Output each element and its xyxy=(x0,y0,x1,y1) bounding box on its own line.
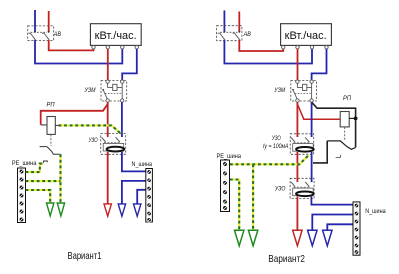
wire red AB to meter xyxy=(49,40,94,51)
svg-text:N_шина: N_шина xyxy=(365,209,386,215)
wire black UZM to RP xyxy=(312,102,356,147)
wire blue UZM to UZO xyxy=(121,102,123,137)
wire PE row2 xyxy=(26,180,61,182)
RP contact xyxy=(327,141,355,149)
wire L phase red drop to AB xyxy=(238,12,240,32)
wire red UZM to UZO1 xyxy=(296,102,298,137)
wire red branch to RP coil xyxy=(297,104,340,119)
wire blue meter to UZM xyxy=(312,49,327,80)
wire blue N row3 xyxy=(137,190,146,204)
wire red UZO2 to arrow xyxy=(296,197,298,231)
breaker AB pole red xyxy=(238,31,240,33)
RP coil tick left xyxy=(41,124,47,126)
UZO1 internals xyxy=(291,137,309,142)
wire red UZM to UZO xyxy=(107,102,109,137)
svg-text:АВ: АВ xyxy=(53,31,62,38)
svg-text:PE_шина: PE_шина xyxy=(217,154,242,160)
meter kWh box xyxy=(90,24,141,46)
contact mark xyxy=(336,155,341,158)
blue arrow 2 xyxy=(323,230,332,246)
RP coil to node xyxy=(349,117,355,119)
breaker AB pole blue xyxy=(223,31,225,33)
svg-text:АВ: АВ xyxy=(243,31,252,38)
meter terminals xyxy=(282,46,285,49)
UZM internals xyxy=(297,83,311,99)
wire PE to UZO1 xyxy=(230,155,309,164)
breaker AB link xyxy=(31,31,48,33)
meter kWh box xyxy=(281,24,332,46)
wire blue N row3 xyxy=(327,224,353,230)
breaker AB box xyxy=(28,26,54,41)
blue arrow 2 xyxy=(134,204,141,216)
blue arrow 1 xyxy=(118,204,125,216)
red arrow xyxy=(293,230,302,246)
wire red meter to UZM xyxy=(107,49,109,80)
UZO1 box xyxy=(290,134,314,155)
svg-text:кВт./час.: кВт./час. xyxy=(285,30,327,42)
RP contact xyxy=(40,147,61,155)
wire L phase red drop to AB xyxy=(48,11,50,32)
UZO internals xyxy=(102,137,120,142)
UZO box xyxy=(101,134,126,155)
RP coil xyxy=(47,117,55,135)
svg-text:N_шина: N_шина xyxy=(132,162,153,168)
green arrow 1 xyxy=(47,203,54,216)
UZO2 internals xyxy=(291,182,309,187)
UZM box xyxy=(291,81,317,101)
PE bus xyxy=(221,160,230,212)
RP link dashed xyxy=(344,127,346,140)
wire red branch to RP coil xyxy=(41,104,108,125)
wire blue UZO1 to UZO2 xyxy=(311,152,313,182)
node junction dot xyxy=(354,117,358,121)
wire N neutral blue drop to AB xyxy=(34,10,36,32)
wire blue N row2 xyxy=(312,215,353,231)
wire blue UZO to N bus xyxy=(122,152,146,172)
PE bus xyxy=(18,168,26,223)
breaker AB pole blue xyxy=(34,31,36,33)
wire blue UZM to UZO1 xyxy=(311,102,313,137)
UZM internals xyxy=(108,83,123,99)
N bus xyxy=(146,169,153,223)
wire PE contact down xyxy=(59,154,61,202)
red arrow xyxy=(104,204,111,216)
N bus xyxy=(353,202,360,255)
svg-text:УЗО: УЗО xyxy=(88,137,98,144)
svg-text:PE_шина: PE_шина xyxy=(12,161,37,167)
svg-text:Вариант1: Вариант1 xyxy=(68,250,102,262)
UZO2 box xyxy=(290,178,314,198)
blue arrow 1 xyxy=(308,230,317,246)
wire blue AB to meter xyxy=(224,40,312,64)
wire red UZO1 to UZO2 xyxy=(296,152,298,182)
svg-text:УЗМ: УЗМ xyxy=(274,87,286,94)
svg-text:кВт./час.: кВт./час. xyxy=(95,30,137,42)
RP coil tick right xyxy=(55,124,59,126)
meter terminals xyxy=(92,46,95,49)
green arrow 1 xyxy=(235,230,244,246)
svg-text:УЗО: УЗО xyxy=(271,135,281,142)
wire PE yellow-green coil to UZO xyxy=(59,125,122,133)
green arrow 2 xyxy=(57,203,64,216)
svg-text:Вариант2: Вариант2 xyxy=(268,253,305,265)
svg-text:РП: РП xyxy=(343,95,351,102)
wire N neutral blue drop to AB xyxy=(223,10,225,31)
svg-text:УЗМ: УЗМ xyxy=(84,87,96,94)
wire PE branch arrow2 xyxy=(252,164,254,230)
wire blue N row2 xyxy=(122,181,146,204)
green arrow 2 xyxy=(248,230,257,246)
svg-text:Iу = 100мА: Iу = 100мА xyxy=(263,143,289,150)
wire red AB to meter xyxy=(239,40,283,51)
svg-text:РП: РП xyxy=(47,101,55,108)
RP link dashed xyxy=(50,135,52,147)
breaker AB pole red xyxy=(48,31,50,33)
breaker AB link xyxy=(220,31,238,33)
wire PE row2 arrow1 xyxy=(230,180,239,231)
wire PE row3 xyxy=(26,190,51,203)
RP coil xyxy=(340,112,349,127)
wire black contact to blue xyxy=(313,141,327,163)
wire blue UZO2 to N bus xyxy=(311,197,353,205)
breaker AB box xyxy=(217,26,242,41)
wire red meter to UZM xyxy=(297,49,299,80)
svg-text:УЗО: УЗО xyxy=(274,185,285,192)
wire red UZO to arrow xyxy=(107,152,109,204)
UZM terminals xyxy=(106,80,109,83)
UZM box xyxy=(101,81,127,101)
wire blue meter to UZM xyxy=(122,49,137,80)
wire blue AB to meter xyxy=(35,40,122,64)
UZM terminals xyxy=(296,80,299,83)
wire PE row1 to contact xyxy=(26,164,44,173)
